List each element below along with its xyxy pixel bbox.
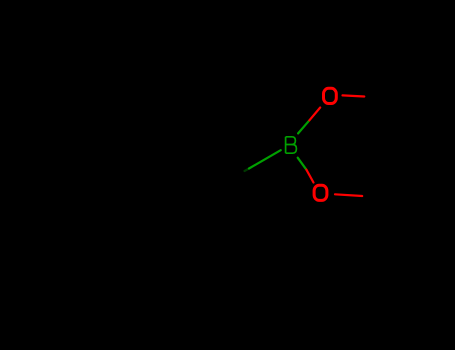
wire: O(bottom)-CH3 bond red half: [335, 194, 362, 196]
wire: B-O(top) bond green half: [298, 120, 309, 133]
wire: C-B bond dark carbon-side tip: [245, 169, 250, 172]
wire: B-O(bottom) bond green half: [298, 158, 307, 170]
atom label O2 (bottom oxygen): [314, 185, 327, 200]
wire: C-B bond green half: [249, 150, 281, 168]
atom label B (boron): [286, 137, 297, 153]
wire: B-O(bottom) bond red half: [306, 170, 313, 183]
atom label O1 (top oxygen): [324, 88, 337, 103]
wire: O(top)-CH3 bond red half: [343, 95, 365, 96]
wire: B-O(top) bond red half: [309, 108, 320, 121]
